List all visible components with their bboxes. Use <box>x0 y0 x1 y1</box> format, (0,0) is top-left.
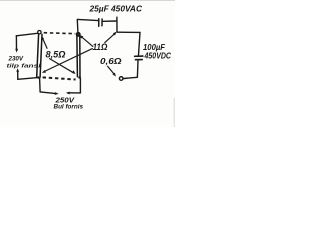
winding L2 terminal circle <box>76 33 80 37</box>
winding L1 right line <box>40 34 42 77</box>
svg-text:tilp fansl: tilp fansl <box>7 63 42 69</box>
svg-text:25µF 450VAC: 25µF 450VAC <box>89 3 143 13</box>
paper right edge shadow <box>174 98 175 127</box>
arrow 11 to L1 bottom <box>42 49 92 73</box>
wire bottom left segment <box>40 92 56 94</box>
arrow 0,6 to terminal <box>108 66 116 76</box>
svg-text:0,6Ω: 0,6Ω <box>100 56 122 66</box>
svg-text:11Ω: 11Ω <box>93 42 108 52</box>
wire mid horizontal to right <box>117 31 140 33</box>
wire top right segment <box>103 20 116 22</box>
wire L1 bottom drop <box>39 78 42 92</box>
arrowhead right on bottom wire <box>55 92 59 95</box>
wire source top horizontal <box>16 33 37 36</box>
wire right vertical lower <box>136 61 139 77</box>
winding L1 left line <box>37 34 39 77</box>
arrowhead left on bottom wire <box>66 92 70 95</box>
node winding L2 bottom junction <box>78 76 81 79</box>
winding L2 left line <box>76 36 79 77</box>
svg-text:230V: 230V <box>8 55 24 62</box>
svg-text:Bul fornis: Bul fornis <box>54 103 84 110</box>
wire top feed vertical to L2 <box>76 19 79 32</box>
node winding L1 bottom junction <box>37 76 39 78</box>
svg-text:450VDC: 450VDC <box>144 52 172 61</box>
wire corner down at junction <box>116 17 118 32</box>
arrow 8,5 to L2 bottom <box>50 59 76 75</box>
capacitor C2 100uF plates <box>135 56 143 60</box>
arrow 11 to junction <box>105 32 117 43</box>
core dashed bottom line <box>43 77 76 79</box>
arrowhead down above 230V <box>15 49 18 53</box>
wire right vertical upper <box>139 32 141 55</box>
capacitor C1 25uF plates <box>99 19 102 26</box>
wire L2 bottom drop <box>79 79 81 93</box>
wire source left vertical lower <box>17 71 19 80</box>
wire top left segment <box>77 19 98 20</box>
svg-text:100µF: 100µF <box>143 42 166 52</box>
core dashed top line <box>44 33 75 34</box>
node terminal circle <box>119 77 123 81</box>
svg-text:8,5Ω: 8,5Ω <box>46 49 66 59</box>
winding L2 right line <box>79 36 81 77</box>
wire source bottom horizontal <box>18 78 38 80</box>
winding L1 terminal circle <box>38 31 41 34</box>
wire source left vertical upper <box>15 36 17 51</box>
paper top edge shadow <box>0 0 175 1</box>
arrow 8,5 to L1 top <box>41 36 47 48</box>
wire bottom right horizontal <box>124 77 138 78</box>
arrowhead up below label <box>16 68 19 72</box>
arrow 11 to L2 top <box>79 35 92 46</box>
wire bottom right segment <box>68 92 80 94</box>
